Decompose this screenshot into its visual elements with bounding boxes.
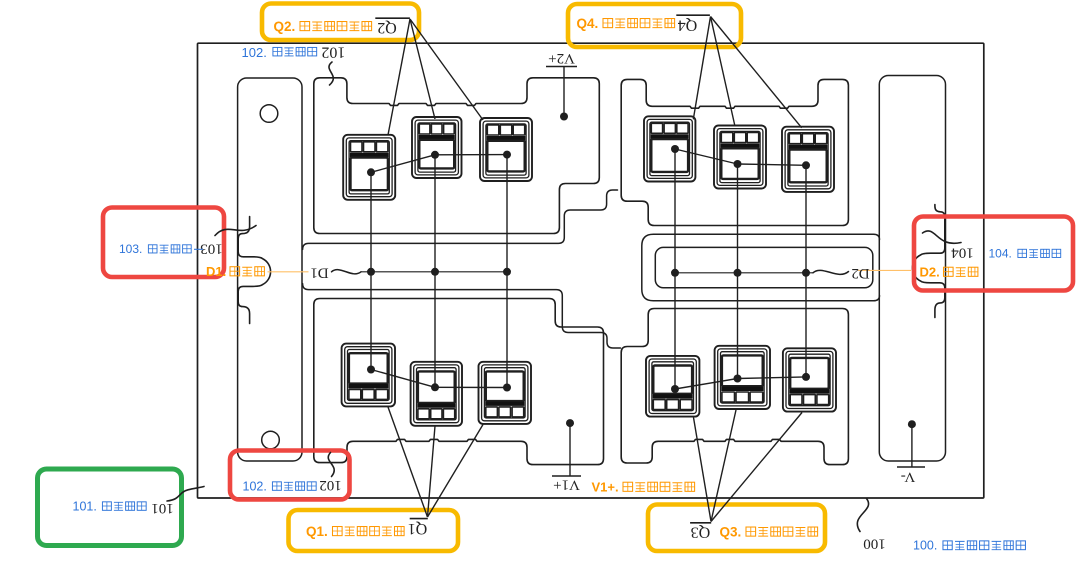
bottom-right copper region (Q3 dies) <box>621 309 848 465</box>
terminal V1+ bar <box>552 475 581 477</box>
svg-text:102: 102 <box>321 44 345 61</box>
terminal V2+ bar <box>546 66 577 68</box>
squiggle 102 bottom <box>328 453 334 477</box>
squiggle D1 <box>332 270 362 274</box>
wire column 3 left <box>506 155 508 388</box>
top-left copper region (first layer 102, Q2 dies) <box>314 78 600 234</box>
transistor die Q4-c <box>782 127 834 192</box>
transistor die Q2-b <box>412 117 462 178</box>
squiggle 100 <box>857 499 868 532</box>
transistor die Q2-a <box>343 135 395 200</box>
svg-text:D1: D1 <box>310 264 328 280</box>
svg-text:V-: V- <box>901 469 915 485</box>
squiggle D2 <box>813 270 849 274</box>
orange leader D2 <box>858 269 911 271</box>
transistor die Q4-b <box>714 126 766 189</box>
layer 103 tab with D1 connection bump <box>238 217 270 324</box>
top-right copper region (Q4 dies) <box>621 79 848 225</box>
transistor die Q4-a <box>644 116 695 181</box>
node D1-1 <box>367 268 375 276</box>
callout box Q4 (yellow) <box>568 4 741 47</box>
Q3 leader fan <box>694 418 712 522</box>
svg-text:V1+: V1+ <box>553 477 580 493</box>
svg-text:101.: 101. <box>73 500 97 514</box>
transistor die Q3-b <box>715 346 770 409</box>
terminal V1+ lead <box>569 423 571 476</box>
squiggle 103 <box>215 226 256 236</box>
callout box Q3 (yellow) <box>648 505 825 552</box>
Q2 leader fan <box>388 19 410 135</box>
node D1-2 <box>431 268 439 276</box>
terminal V- lead <box>911 424 913 467</box>
left copper strip <box>238 78 302 461</box>
Q4 leader fan <box>693 17 710 120</box>
svg-text:Q4.: Q4. <box>577 16 599 31</box>
transistor die Q1-c <box>479 362 532 424</box>
callout box 102 (red) <box>230 451 350 500</box>
wire column 3 right <box>805 165 807 377</box>
svg-text:103.: 103. <box>119 242 142 256</box>
svg-text:102: 102 <box>319 477 342 493</box>
mounting hole bottom-left <box>262 431 280 449</box>
callout box 104 (red) <box>914 217 1073 291</box>
callout box Q1 (yellow) <box>289 510 459 551</box>
svg-text:Q2: Q2 <box>377 19 397 36</box>
transistor die Q3-c <box>783 348 836 411</box>
callout box Q2 (yellow) <box>262 4 419 41</box>
svg-text:103: 103 <box>200 241 223 257</box>
svg-text:D1.: D1. <box>206 264 226 279</box>
D2 bus wire <box>675 272 813 274</box>
svg-text:102.: 102. <box>242 45 267 60</box>
svg-text:104.: 104. <box>989 247 1012 261</box>
D2 bus bar <box>655 247 873 287</box>
transistor die Q1-a <box>342 344 395 407</box>
bottom-left copper region (Q1 dies) <box>314 299 604 465</box>
terminal V2+ node <box>560 113 568 121</box>
svg-text:Q1: Q1 <box>408 520 428 537</box>
transistor die Q2-c <box>480 118 532 181</box>
wire column 1 left <box>370 172 372 369</box>
squiggle 104 <box>923 231 962 243</box>
node D2-2 <box>734 269 742 277</box>
svg-text:100.: 100. <box>913 539 937 553</box>
svg-text:Q4: Q4 <box>678 17 698 34</box>
callout box 103 (red) <box>103 208 224 278</box>
node D2-3 <box>802 269 810 277</box>
terminal V1+ node <box>566 419 574 427</box>
svg-text:102.: 102. <box>243 480 267 494</box>
svg-text:101: 101 <box>151 500 174 516</box>
svg-text:V1+.: V1+. <box>592 480 619 495</box>
orange leader D1 <box>268 271 309 273</box>
substrate outer border (insulating substrate 101) <box>198 43 984 498</box>
svg-text:D2: D2 <box>851 265 869 281</box>
wire column 2 left <box>434 155 436 387</box>
svg-text:D2.: D2. <box>920 265 940 280</box>
Q1 leader fan <box>388 407 428 517</box>
mounting hole top-left <box>260 105 278 123</box>
D1 bus bar top edge with neck <box>303 190 618 249</box>
wire BL die1-die2 <box>371 370 435 388</box>
wire BR die2-die3 <box>738 377 807 379</box>
node D1-3 <box>503 268 511 276</box>
svg-text:Q3.: Q3. <box>720 525 742 540</box>
callout box 101 (green) <box>38 469 182 546</box>
D1 bus bar bottom edge with neck <box>303 284 621 348</box>
terminal V2+ lead <box>563 67 565 117</box>
wire TL die1-die2 <box>371 155 435 173</box>
squiggle 102 top <box>329 62 333 85</box>
wire column 1 right <box>674 149 676 389</box>
layer 104 tab with D2 connection bump <box>912 205 944 318</box>
svg-text:Q2.: Q2. <box>274 19 296 34</box>
wire TL die2-die3 <box>435 154 507 156</box>
wire BL die2-die3 <box>435 386 507 388</box>
terminal V- bar <box>897 466 925 468</box>
svg-text:104: 104 <box>951 245 974 261</box>
D1 bus wire <box>361 271 507 273</box>
transistor die Q1-b <box>411 362 462 426</box>
transistor die Q3-a <box>646 356 699 417</box>
svg-text:Q3: Q3 <box>691 523 711 540</box>
wire BR die1-die2 <box>675 379 738 390</box>
svg-text:Q1.: Q1. <box>306 524 328 539</box>
wire TR die2-die3 <box>738 164 807 165</box>
svg-text:100: 100 <box>863 536 886 552</box>
terminal V- node <box>908 420 916 428</box>
wire TR die1-die2 <box>675 149 738 164</box>
squiggle 101 <box>167 487 204 502</box>
node D2-1 <box>671 269 679 277</box>
wire column 2 right <box>737 164 739 379</box>
svg-text:V2+: V2+ <box>548 50 575 66</box>
right copper strip <box>879 76 945 462</box>
D2 channel (moat) outline <box>642 234 880 301</box>
